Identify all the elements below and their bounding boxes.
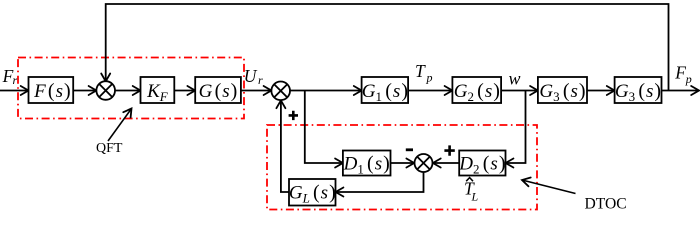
svg-text:G1(s): G1(s) bbox=[362, 80, 408, 104]
svg-text:F(s): F(s) bbox=[33, 80, 71, 102]
svg-text:w: w bbox=[509, 69, 521, 89]
svg-text:G(s): G(s) bbox=[199, 80, 238, 102]
svg-text:F: F bbox=[674, 62, 686, 82]
svg-text:r: r bbox=[13, 73, 18, 87]
svg-text:G2(s): G2(s) bbox=[454, 80, 500, 104]
svg-text:G3(s): G3(s) bbox=[615, 80, 661, 104]
svg-text:L: L bbox=[471, 190, 479, 204]
svg-text:D1(s): D1(s) bbox=[343, 153, 390, 177]
svg-text:DTOC: DTOC bbox=[585, 195, 627, 212]
svg-text:p: p bbox=[685, 72, 692, 86]
svg-text:QFT: QFT bbox=[96, 141, 123, 156]
svg-text:T: T bbox=[415, 61, 426, 81]
svg-text:r: r bbox=[258, 73, 263, 87]
svg-text:p: p bbox=[426, 71, 433, 85]
svg-text:G3(s): G3(s) bbox=[539, 80, 585, 104]
svg-text:U: U bbox=[244, 66, 258, 86]
svg-text:D2(s): D2(s) bbox=[458, 153, 505, 177]
svg-text:GL(s): GL(s) bbox=[289, 182, 336, 206]
